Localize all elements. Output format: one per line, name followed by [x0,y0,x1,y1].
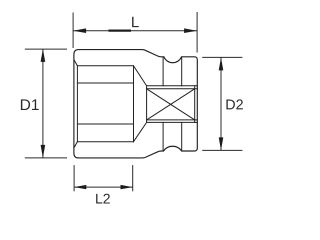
face chamfer edge top-left [74,60,77,66]
D2 arrow down [219,137,224,150]
drive square bottom inner [147,119,198,121]
L arrow right [184,28,197,33]
L arrow left [73,28,86,33]
cavity end wall [133,66,135,142]
D1 dimension line [42,49,44,158]
cone transition top [134,66,147,86]
groove right edge top [181,57,183,86]
groove right edge bottom [181,122,183,150]
square diagonal 2 [147,89,195,120]
cavity top line [77,65,133,67]
D1 extension line bottom [25,157,67,159]
L extension line left [72,13,74,49]
L2 extension line right [132,165,134,191]
L2 arrow right [121,185,133,189]
D1 arrow up [41,49,46,62]
D2 arrow up [219,57,224,70]
cavity lower inner line [77,123,133,125]
D1 extension line top [25,48,67,50]
groove left edge top [162,57,164,86]
D1 arrow down [41,145,46,158]
cavity bottom line [77,141,133,143]
socket body outline [74,50,197,158]
groove left edge bottom [162,122,164,150]
D2 dimension line [220,57,222,150]
L dimension line thick segment [109,30,132,32]
L2 dimension line [74,186,133,188]
drive square left edge [146,86,148,123]
drive square top outer [147,85,198,87]
cavity upper inner line [77,82,133,84]
drive square right edge [194,86,196,123]
drive square bottom outer [147,121,198,123]
svg-text:D1: D1 [20,97,40,114]
cone transition bottom [134,122,147,141]
L2 extension line left [73,165,75,191]
L2 arrow left [74,185,86,189]
svg-text:L: L [131,14,139,31]
D2 extension line bottom [202,149,242,151]
D2 extension line top [202,56,242,58]
drive square top inner [147,88,198,90]
svg-text:D2: D2 [225,97,243,113]
svg-text:L2: L2 [95,190,111,206]
face chamfer edge bottom-left [74,142,77,148]
L dimension line [73,30,197,32]
L extension line right [196,12,198,53]
square diagonal 1 [147,89,195,120]
cavity opening vertical [76,66,78,142]
